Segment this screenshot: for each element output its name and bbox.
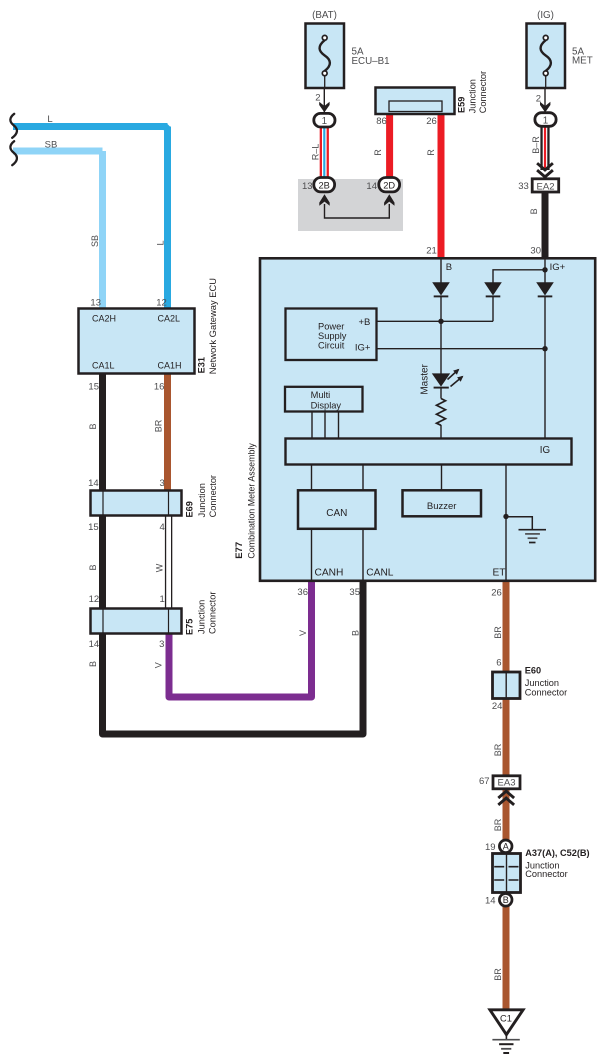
svg-text:E59: E59 (456, 97, 466, 113)
svg-text:SB: SB (45, 140, 58, 151)
svg-text:3: 3 (160, 478, 165, 489)
svg-text:14: 14 (485, 896, 496, 907)
svg-text:Power: Power (318, 321, 344, 331)
svg-text:15: 15 (88, 382, 99, 393)
svg-text:Junction: Junction (196, 600, 206, 634)
svg-text:B: B (88, 423, 98, 429)
svg-text:E60: E60 (525, 666, 541, 676)
svg-text:67: 67 (479, 776, 490, 787)
svg-text:Buzzer: Buzzer (427, 501, 457, 512)
svg-text:L: L (156, 240, 166, 245)
svg-text:A: A (503, 842, 509, 852)
svg-text:B: B (350, 630, 360, 636)
svg-text:EA2: EA2 (537, 181, 555, 192)
svg-text:Connector: Connector (208, 475, 218, 517)
svg-text:MET: MET (572, 56, 593, 67)
svg-text:36: 36 (297, 587, 308, 598)
svg-text:R: R (426, 149, 436, 156)
svg-text:BR: BR (154, 419, 164, 432)
svg-text:24: 24 (492, 701, 503, 712)
svg-text:BR: BR (493, 818, 503, 831)
svg-text:6: 6 (496, 658, 501, 669)
svg-text:B: B (529, 208, 539, 214)
svg-text:1: 1 (160, 594, 165, 605)
svg-text:B–R: B–R (531, 136, 541, 154)
svg-text:BR: BR (493, 743, 503, 756)
svg-text:Supply: Supply (318, 331, 347, 341)
svg-text:30: 30 (530, 246, 541, 257)
svg-text:B: B (88, 661, 98, 667)
svg-text:ECU–B1: ECU–B1 (352, 56, 390, 67)
svg-text:14: 14 (366, 181, 377, 192)
svg-text:L: L (47, 114, 52, 125)
svg-text:Connector: Connector (207, 592, 217, 634)
svg-text:12: 12 (89, 594, 100, 605)
svg-text:13: 13 (302, 181, 313, 192)
svg-text:Junction: Junction (197, 483, 207, 517)
svg-text:ET: ET (493, 568, 506, 579)
svg-text:Junction: Junction (467, 79, 477, 113)
svg-text:A37(A), C52(B): A37(A), C52(B) (525, 848, 589, 858)
svg-text:(IG): (IG) (537, 10, 554, 21)
svg-text:14: 14 (88, 478, 99, 489)
svg-text:1: 1 (322, 116, 327, 127)
svg-text:15: 15 (88, 522, 99, 533)
svg-text:2: 2 (315, 93, 320, 104)
svg-text:35: 35 (349, 587, 360, 598)
svg-text:CANL: CANL (366, 568, 394, 579)
svg-text:16: 16 (154, 382, 165, 393)
svg-text:14: 14 (89, 639, 100, 650)
svg-text:CA1L: CA1L (92, 360, 115, 370)
svg-text:CA2H: CA2H (92, 313, 116, 323)
svg-text:4: 4 (160, 522, 165, 533)
svg-text:IG: IG (540, 445, 550, 456)
svg-text:IG+: IG+ (550, 262, 566, 273)
svg-text:E75: E75 (184, 619, 194, 635)
svg-text:CAN: CAN (326, 508, 347, 519)
svg-text:IG+: IG+ (355, 342, 371, 353)
svg-text:B: B (503, 895, 509, 905)
svg-text:R: R (373, 149, 383, 156)
svg-text:V: V (153, 662, 163, 668)
svg-text:Master: Master (420, 363, 431, 394)
svg-text:B: B (88, 564, 98, 570)
svg-text:12: 12 (156, 298, 167, 309)
svg-text:E69: E69 (184, 501, 194, 517)
svg-text:1: 1 (543, 115, 548, 126)
svg-text:Display: Display (311, 400, 342, 410)
svg-text:Network Gateway ECU: Network Gateway ECU (207, 278, 218, 375)
svg-text:19: 19 (485, 842, 496, 853)
svg-text:E77: E77 (234, 542, 245, 559)
svg-text:W: W (154, 563, 164, 572)
svg-text:86: 86 (376, 116, 387, 127)
svg-text:EA3: EA3 (498, 778, 516, 789)
svg-text:Connector: Connector (525, 869, 567, 879)
svg-text:2D: 2D (383, 180, 395, 190)
svg-text:CANH: CANH (315, 568, 344, 579)
svg-text:BR: BR (493, 968, 503, 981)
svg-text:26: 26 (426, 116, 437, 127)
svg-text:Combination Meter Assembly: Combination Meter Assembly (246, 443, 256, 559)
svg-text:SB: SB (90, 235, 100, 247)
svg-text:Connector: Connector (478, 71, 488, 113)
svg-text:21: 21 (426, 246, 437, 257)
svg-text:C1: C1 (500, 1014, 512, 1024)
svg-text:BR: BR (493, 626, 503, 639)
svg-text:Multi: Multi (311, 390, 331, 400)
svg-text:+B: +B (359, 317, 371, 328)
svg-text:2: 2 (536, 94, 541, 105)
svg-text:(BAT): (BAT) (312, 10, 337, 21)
svg-text:Circuit: Circuit (318, 340, 345, 350)
svg-text:3: 3 (159, 639, 164, 650)
svg-text:33: 33 (518, 181, 529, 192)
svg-text:CA1H: CA1H (158, 360, 182, 370)
svg-text:CA2L: CA2L (158, 313, 181, 323)
svg-text:2B: 2B (319, 180, 330, 190)
svg-text:B: B (446, 262, 452, 273)
svg-text:R–L: R–L (310, 144, 320, 161)
svg-text:Connector: Connector (525, 688, 567, 698)
svg-text:26: 26 (491, 588, 502, 599)
svg-text:E31: E31 (196, 357, 206, 373)
svg-text:13: 13 (90, 298, 101, 309)
svg-text:V: V (298, 630, 308, 636)
